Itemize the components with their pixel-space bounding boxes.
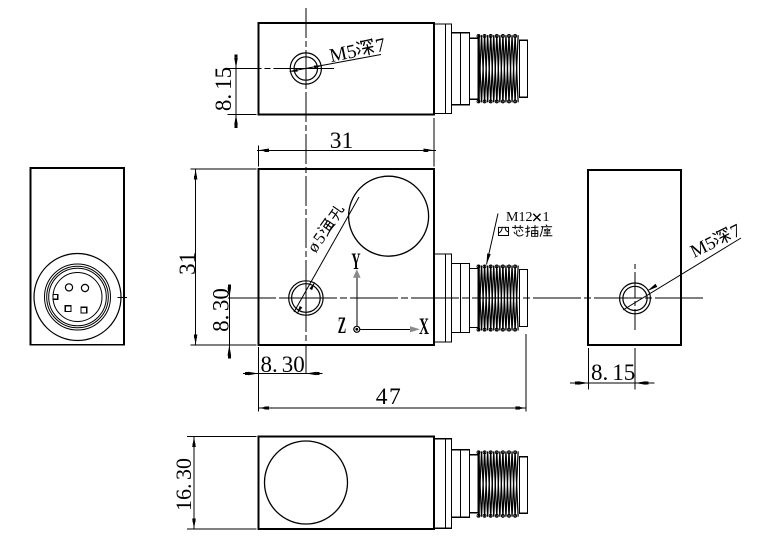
bottom view connector end cap [520, 457, 528, 514]
axis label X [419, 315, 429, 340]
dimension 8.15 (top view) arrows [234, 55, 238, 128]
dimension 8.30 bottom dim line [243, 373, 323, 375]
label 四芯插座 [498, 225, 552, 236]
top view leader arrowhead [289, 65, 323, 71]
svg-text:Y: Y [351, 249, 361, 275]
dimension text 8.15 (top view) [211, 67, 236, 111]
bottom view connector thread [479, 451, 519, 516]
top view body outline [259, 23, 435, 114]
top view connector end cap [520, 40, 528, 97]
bottom view large circle [265, 441, 348, 524]
svg-text:Z: Z [338, 313, 346, 339]
front view leader line ø5 [294, 197, 359, 312]
right view leader line M5 [623, 238, 741, 310]
front view connector thread [479, 266, 519, 331]
dimension text 16.30 [171, 458, 196, 511]
svg-text:31: 31 [175, 252, 200, 275]
axis label Z [338, 313, 346, 339]
svg-text:1: 1 [543, 210, 550, 225]
dimension 31 left extension lines [191, 169, 257, 345]
dimension text 31 top [330, 128, 354, 154]
dimension 31 left arrows [194, 169, 198, 345]
bottom view body outline [259, 437, 435, 530]
dimension 47 arrows [259, 406, 527, 410]
left view body outline [31, 168, 125, 345]
X axis arrowhead [410, 326, 420, 332]
dimension 8.30 left dim line [228, 285, 230, 358]
dimension 8.30 left arrows [228, 285, 232, 359]
svg-text:16.30: 16.30 [171, 458, 196, 511]
label M5深7 (right view) [687, 221, 744, 263]
label M5深7 (top view) [328, 35, 388, 67]
svg-text:8.15: 8.15 [211, 67, 236, 111]
dimension text 8.15 right [591, 360, 635, 385]
dimension 31 top extension lines [259, 118, 435, 167]
front view bottom-left extension line [258, 347, 260, 412]
left view connector ring circles [45, 264, 111, 330]
dimension 31 left dim line [195, 169, 197, 345]
svg-text:47: 47 [376, 384, 403, 410]
top view M5 tapped hole [290, 53, 321, 84]
label ø5通孔 [303, 202, 349, 256]
svg-text:31: 31 [330, 128, 354, 154]
dimension 8.15 right dim line [570, 382, 655, 384]
top view connector flange A [434, 24, 452, 114]
svg-text:8.15: 8.15 [591, 360, 635, 385]
main horizontal centerline [228, 297, 704, 299]
front view hole crosshair solid segments [285, 278, 330, 320]
svg-text:M12: M12 [506, 210, 532, 225]
dimension text 31 left [175, 252, 200, 275]
dimension 8.15 (top view) dim line [235, 55, 237, 127]
connector leader arrowhead [487, 253, 491, 264]
dimension 8.15 right extension lines [589, 348, 636, 390]
dimension text 47 [376, 384, 403, 410]
right view leader arrowhead [647, 284, 657, 291]
svg-text:8.30: 8.30 [209, 288, 234, 332]
right view body outline [588, 170, 681, 345]
top view hole horizontal centerline [228, 67, 334, 69]
dimension text 8.30 left [209, 288, 234, 332]
left view centerline tick [118, 297, 128, 299]
front view connector neck [470, 269, 479, 328]
dimension 31 top dim line [257, 149, 436, 151]
front view large circle [349, 176, 429, 256]
dimension 47 dim line [259, 407, 527, 409]
coordinate axes origin marker [354, 326, 360, 332]
dimension 16.30 arrows [192, 437, 196, 530]
left view pin 4 [81, 307, 87, 313]
left view key notch [53, 294, 58, 299]
top view connector neck [470, 38, 479, 99]
Y axis arrowhead [353, 269, 361, 278]
svg-text:8.30: 8.30 [261, 352, 305, 377]
front view connector end cap [520, 270, 528, 327]
left view pin 3 [65, 306, 71, 312]
top view connector flange B [452, 33, 470, 105]
dimension 8.30 bottom arrows [245, 372, 319, 376]
dimension 8.15 (top view) extension line [228, 113, 257, 115]
X axis line [360, 328, 411, 330]
left view pin 1 [65, 284, 72, 291]
front view connector flange A [434, 254, 452, 342]
dimension text 8.30 bottom [261, 352, 305, 377]
bottom view connector flange A [434, 439, 452, 528]
right view M5 tapped hole [620, 283, 651, 314]
front view ø5 through hole [289, 281, 323, 315]
connector leader line M12 [487, 214, 499, 265]
Y axis line [356, 277, 358, 327]
dimension 8.15 right arrows [575, 381, 649, 385]
label M12×1 [506, 210, 550, 225]
top view leader line M5 [296, 55, 381, 71]
left view connector outer circle [34, 254, 121, 341]
top view connector thread [479, 35, 519, 102]
dimension 16.30 extension lines [187, 437, 257, 530]
right view hole vertical centerline [634, 264, 636, 330]
dimension 47 right extension line [525, 334, 527, 412]
dimension 16.30 dim line [193, 437, 195, 530]
bottom view connector flange B [452, 450, 470, 518]
front view connector flange B [452, 264, 470, 333]
vertical centerline through top and front views [305, 8, 307, 375]
front view leader arrowhead [297, 282, 316, 315]
front view body outline [259, 169, 435, 345]
left view pin 2 [81, 284, 88, 291]
dimension 31 top arrows [259, 149, 435, 153]
svg-text:X: X [419, 315, 429, 340]
top view hole crosshair solid segments [288, 50, 324, 88]
bottom view connector neck [470, 455, 479, 513]
axis label Y [351, 249, 361, 275]
